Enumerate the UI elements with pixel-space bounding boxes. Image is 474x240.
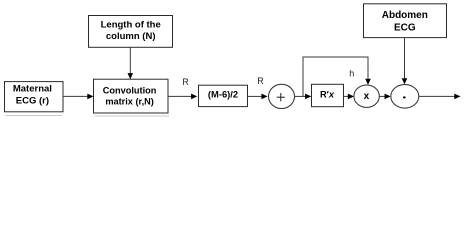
svg-text:Length of the: Length of the (101, 19, 161, 30)
block Convolution matrix (r,N) (94, 79, 169, 113)
block R'x (312, 84, 344, 106)
svg-text:R: R (182, 77, 189, 87)
multiplier x (354, 85, 379, 107)
svg-text:ECG: ECG (394, 23, 416, 34)
wire Maternal to Convolution (63, 94, 94, 100)
subtractor . (391, 85, 419, 109)
block Maternal ECG (r) (5, 82, 64, 112)
svg-text:Abdomen: Abdomen (382, 10, 428, 21)
block Length of the column (N) (89, 16, 173, 48)
wire multiplier to subtractor (379, 94, 391, 100)
svg-text:h: h (349, 68, 354, 78)
wire feedback loop to multiplier (303, 57, 371, 96)
svg-text:column (N): column (N) (106, 31, 156, 42)
block Abdomen ECG (364, 4, 447, 38)
wire summer to R'x (295, 94, 312, 100)
wire Abdomen to subtractor (402, 38, 408, 85)
svg-text:Maternal: Maternal (13, 83, 52, 94)
block (M-6)/2 (199, 85, 248, 106)
svg-text:R′x: R′x (320, 90, 335, 100)
svg-text:(M-6)/2: (M-6)/2 (208, 88, 238, 99)
svg-text:ECG (r): ECG (r) (16, 96, 49, 107)
svg-text:x: x (364, 91, 370, 102)
wire Length to Convolution (128, 47, 134, 79)
svg-text:Convolution: Convolution (103, 86, 157, 96)
wire Convolution to (M-6)/2 (168, 94, 197, 100)
wire (M-6)/2 to summer (248, 94, 268, 100)
svg-text:R: R (257, 76, 264, 86)
wire output (419, 94, 461, 100)
wire R'x to multiplier (344, 94, 355, 100)
summing junction + (269, 84, 295, 108)
svg-text:matrix (r,N): matrix (r,N) (105, 97, 154, 107)
